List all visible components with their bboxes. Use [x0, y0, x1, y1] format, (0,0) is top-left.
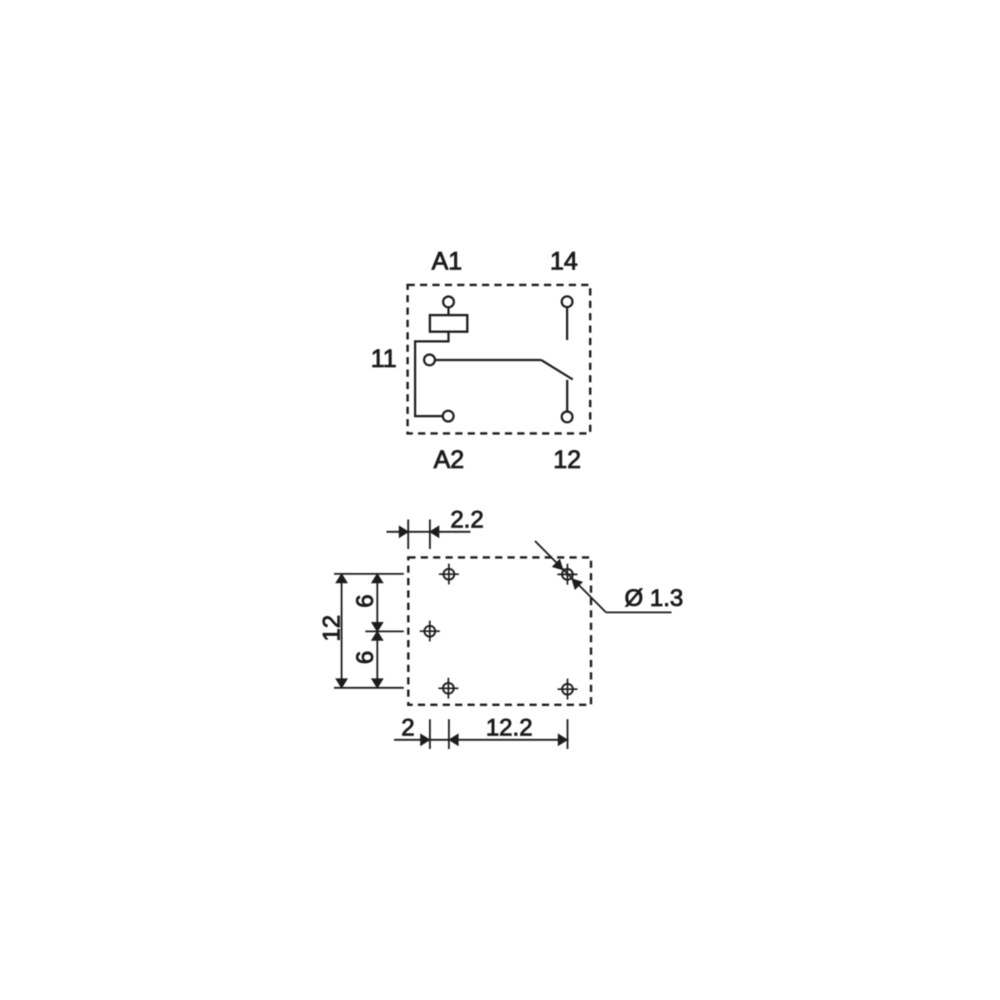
svg-text:11: 11	[371, 345, 397, 373]
svg-text:12.2: 12.2	[486, 714, 533, 741]
relay outline (dashed box, schematic)	[408, 285, 591, 434]
svg-text:2.2: 2.2	[450, 506, 483, 533]
extension line middle row	[365, 630, 403, 632]
extension line hole column right	[567, 719, 569, 749]
extension line right (hole column)	[429, 520, 431, 550]
wire coil to pin A2	[415, 332, 448, 416]
arrowhead pointing right at x=408.2	[399, 526, 408, 537]
dimension line 12	[341, 574, 343, 688]
pin 12 terminal circle	[562, 412, 573, 423]
arrowhead down (6 lower)	[372, 679, 383, 688]
svg-text:12: 12	[318, 615, 345, 642]
svg-text:6: 6	[352, 594, 379, 607]
hole H4 (pin A2)	[438, 678, 458, 699]
pin 11 terminal circle	[424, 355, 435, 366]
svg-text:Ø 1.3: Ø 1.3	[625, 585, 684, 612]
arrowhead pointing right at x=567.5 (12.2)	[558, 734, 567, 745]
hole H5 (pin 12)	[558, 679, 578, 700]
hole H3 (pin 11)	[420, 621, 440, 642]
switch arm (movable contact)	[541, 360, 573, 379]
wire pin 14 NO contact	[566, 308, 568, 340]
dimension line	[394, 739, 569, 741]
svg-text:A1: A1	[432, 247, 463, 275]
extension line bottom row	[334, 687, 404, 689]
svg-text:12: 12	[553, 446, 581, 474]
pin A2 terminal circle	[443, 411, 454, 422]
svg-text:14: 14	[550, 248, 578, 276]
leader diagonal segment	[535, 541, 606, 612]
leader horizontal segment	[606, 611, 672, 613]
arrowhead down (12)	[336, 679, 347, 688]
wire common contact from pin 11	[435, 359, 541, 361]
arrowhead up (12)	[336, 574, 347, 583]
coil K1	[430, 315, 467, 332]
arrowhead pointing right at x=429.9 (2)	[421, 734, 430, 745]
extension line left (box edge)	[407, 520, 409, 550]
dimension line	[387, 531, 471, 533]
extension line hole column middle	[429, 719, 431, 749]
arrowhead pointing left at x=448.9 (12.2)	[449, 734, 458, 745]
hole H1 (pin A1)	[439, 564, 459, 585]
svg-text:A2: A2	[434, 446, 465, 474]
arrowhead down to middle (6 upper)	[372, 623, 383, 632]
svg-text:6: 6	[352, 651, 379, 664]
pin 14 terminal circle	[562, 296, 573, 307]
dimension line 6/6	[376, 574, 378, 688]
wire A1 to coil	[447, 308, 449, 316]
svg-text:2: 2	[401, 714, 414, 741]
hole H2 (pin 14)	[557, 564, 577, 585]
footprint outline (dashed box)	[408, 557, 591, 704]
wire pin 12 to contact	[566, 380, 568, 411]
arrowhead pointing left at x=429.9	[430, 526, 439, 537]
extension line top row	[334, 573, 404, 575]
leader arrowhead upper (points at hole)	[553, 560, 563, 570]
leader arrowhead lower (points at hole)	[572, 579, 582, 589]
dimension 2.2 (top)	[387, 520, 471, 550]
leader line for hole diameter	[535, 541, 672, 612]
arrowhead up from middle (6 lower)	[372, 631, 383, 640]
arrowhead up (6 upper)	[372, 574, 383, 583]
pin A1 terminal circle	[443, 297, 454, 308]
extension line hole column left	[448, 719, 450, 749]
left dimensions 12 / 6 / 6	[334, 574, 404, 688]
bottom dimensions 2 / 12.2	[394, 719, 569, 749]
